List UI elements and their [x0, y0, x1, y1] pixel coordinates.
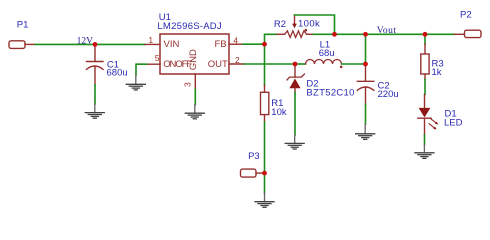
svg-text:P1: P1	[17, 20, 29, 31]
node Vout-C2 junction	[363, 32, 368, 37]
svg-text:P2: P2	[460, 10, 472, 21]
node wiper junction	[332, 32, 337, 37]
U1 pin 3 GND	[194, 74, 196, 89]
ground D2	[285, 135, 304, 149]
svg-text:1: 1	[148, 35, 153, 45]
capacitor C2	[357, 64, 398, 104]
wire Vout row	[335, 33, 455, 35]
svg-text:3: 3	[183, 82, 193, 87]
capacitor C1	[87, 44, 128, 85]
svg-text:1k: 1k	[432, 67, 442, 78]
wire node to R3	[424, 34, 426, 44]
wire R3 to D1	[424, 80, 426, 95]
node switch junction	[293, 62, 298, 67]
wire C2 to ground	[365, 104, 367, 124]
wire pin5 to ground	[136, 64, 147, 75]
IC U1 LM2596S-ADJ body	[157, 12, 229, 74]
wire OUT to D2 node	[244, 63, 295, 65]
node L1-C2 junction	[363, 62, 368, 67]
ground C1	[85, 104, 104, 118]
ground P3	[255, 193, 274, 207]
diode D1 LED	[418, 95, 463, 136]
wire C1 to ground	[94, 85, 96, 104]
ground C2	[356, 124, 375, 139]
node R3 junction	[423, 32, 428, 37]
node P3 junction	[262, 171, 267, 176]
svg-text:FB: FB	[215, 39, 227, 50]
node 12V junction	[93, 42, 98, 47]
resistor R1 10k	[261, 85, 287, 122]
wire P1 to VIN	[35, 43, 145, 45]
svg-text:12V: 12V	[77, 37, 94, 47]
ground D1	[415, 145, 434, 159]
U1 pin 5 ONOFF	[147, 63, 161, 65]
svg-text:VIN: VIN	[164, 39, 180, 50]
inductor L1 68u	[306, 40, 343, 69]
U1 pin 1 VIN	[145, 43, 160, 45]
U1 pin 2 OUT	[229, 63, 244, 65]
wire R2 right to node	[314, 33, 335, 35]
wire D2 to ground	[294, 93, 296, 136]
ground U1	[185, 105, 204, 119]
connector P3	[241, 151, 265, 177]
ground ONOFF	[126, 75, 145, 90]
wire Vout down to L1 out	[365, 34, 367, 64]
svg-text:P3: P3	[248, 151, 260, 162]
node FB junction	[262, 42, 267, 47]
svg-text:R2: R2	[274, 19, 286, 30]
connector P1	[9, 20, 35, 49]
wire P3 node to ground	[264, 173, 266, 193]
svg-text:2: 2	[235, 55, 240, 65]
wire L1 to C2 node	[342, 63, 366, 65]
svg-text:680u: 680u	[107, 68, 128, 79]
svg-text:4: 4	[233, 35, 238, 45]
svg-text:GND: GND	[188, 49, 199, 70]
wire FB node down to R1	[264, 44, 266, 85]
wire R2 wiper loop	[295, 15, 335, 34]
wire FB node up to R2	[265, 34, 278, 44]
svg-text:Vout: Vout	[377, 26, 397, 36]
resistor R2 potentiometer	[274, 15, 320, 37]
svg-text:10k: 10k	[271, 107, 287, 118]
diode D2 zener BZT52C10	[287, 64, 355, 98]
svg-text:LM2596S-ADJ: LM2596S-ADJ	[157, 21, 222, 32]
svg-text:OUT: OUT	[208, 59, 228, 70]
svg-text:68u: 68u	[319, 48, 335, 59]
connector P2	[455, 10, 482, 38]
svg-text:5: 5	[155, 53, 160, 63]
svg-text:BZT52C10: BZT52C10	[306, 87, 354, 98]
wire FB to node	[243, 43, 265, 45]
wire R1 to P3 node	[264, 122, 266, 173]
resistor R3 1k	[421, 44, 444, 80]
svg-text:100k: 100k	[298, 19, 320, 30]
wire OUT node to L1	[295, 63, 306, 65]
wire pin3 to ground	[194, 89, 196, 104]
svg-text:LED: LED	[444, 118, 463, 129]
U1 pin 4 FB	[229, 43, 243, 45]
wire D1 to ground	[424, 135, 426, 145]
svg-text:220u: 220u	[378, 89, 399, 100]
